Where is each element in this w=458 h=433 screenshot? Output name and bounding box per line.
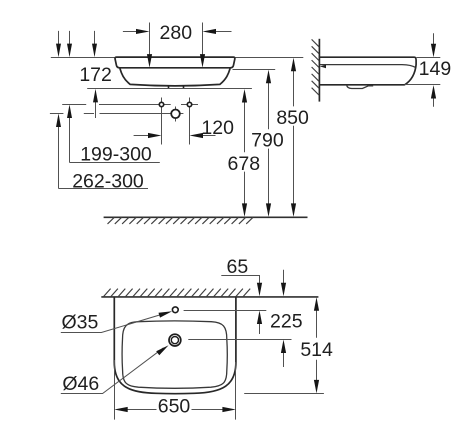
small wall fixing mark	[320, 65, 326, 69]
svg-text:514: 514	[300, 339, 333, 361]
underside extension line (to 149 dim)	[405, 84, 440, 86]
dim 790: vertical line with arrows	[268, 75, 270, 212]
dim 262-300: up arrow at mixer centerline, leader to label	[58, 125, 60, 189]
front view: rim top extension line left	[51, 57, 115, 59]
dim 678: vertical line with arrows	[244, 94, 246, 212]
front view: inner rim extension line right (to 790 dim)	[233, 69, 276, 71]
svg-text:Ø46: Ø46	[62, 373, 99, 395]
mixer hole (crosshair circle)	[175, 107, 177, 122]
washbasin plan: outer outline	[114, 297, 236, 394]
svg-text:650: 650	[158, 395, 191, 417]
extension line from mixer hole (to 225 dim)	[188, 339, 291, 341]
dim 172: up arrow onto underside line	[95, 100, 97, 118]
dim 225: arrows between wall and mixer-hole line	[283, 270, 285, 286]
dim 262-300: down arrow at rim line	[58, 31, 60, 46]
washbasin side profile: underside	[319, 84, 405, 86]
front view: rim top extension line right (to 850 dim)	[235, 57, 303, 59]
dim 120: left tail + arrow	[134, 135, 152, 137]
wall line (side view)	[318, 39, 320, 102]
svg-text:790: 790	[251, 129, 284, 151]
dim 199-300: up arrow at tap-hole centerline, leader to label	[69, 116, 71, 163]
wall hatching (plan view)	[104, 289, 251, 297]
mixer hole centerline (dashed)	[50, 113, 184, 115]
dim 199-300: down arrow at rim line	[69, 31, 71, 46]
dim 149: bottom arrow	[433, 96, 435, 107]
basin underside / mounting line (678 extension)	[87, 88, 252, 90]
floor hatching	[108, 217, 253, 224]
wall line (plan view)	[101, 296, 318, 298]
svg-text:225: 225	[270, 310, 303, 332]
washbasin side profile: inner rim edge	[320, 65, 416, 68]
basin bottom extension line (to 514 dim)	[244, 393, 324, 395]
svg-text:65: 65	[227, 256, 249, 278]
dim 280: left extension line with down arrow	[149, 23, 151, 59]
dim 149: top arrow	[433, 33, 435, 46]
svg-text:149: 149	[419, 58, 452, 80]
tap hole Ø35 (plan)	[172, 307, 178, 313]
dim 280: right tail + arrow	[213, 31, 232, 33]
tap hole right (crosshair circle)	[189, 98, 191, 145]
washbasin front outline: bowl body	[120, 68, 230, 86]
dim 850: vertical line with arrows	[293, 62, 295, 211]
dim 650: extension lines	[115, 360, 236, 420]
floor line	[104, 216, 308, 218]
dim 280: right extension line with down arrow	[202, 23, 204, 59]
washbasin drain fitting (front)	[169, 85, 184, 88]
rim top extension line (to 149 dim)	[417, 57, 441, 59]
svg-text:678: 678	[228, 153, 261, 175]
washbasin side profile: rim top and front nose	[319, 57, 416, 84]
extension line from tap hole (to 65 dim)	[184, 310, 267, 312]
washbasin front outline: rim	[115, 57, 235, 68]
svg-text:172: 172	[79, 64, 112, 86]
svg-text:280: 280	[160, 22, 193, 44]
tap hole centerline (dashed)	[62, 104, 198, 106]
svg-text:262-300: 262-300	[72, 171, 144, 193]
washbasin plan: inner rim	[122, 321, 227, 388]
wall hatching (side view)	[312, 39, 319, 95]
svg-text:120: 120	[201, 117, 234, 139]
dim 120: right tail + arrow	[200, 135, 216, 137]
mixer hole Ø46 (plan, double circle)	[169, 334, 181, 346]
drain fitting (side)	[347, 85, 374, 89]
tap hole left (crosshair circle)	[161, 98, 163, 145]
svg-text:Ø35: Ø35	[61, 311, 98, 333]
dim 650: dimension line with arrows	[125, 409, 225, 411]
dim 514: vertical line with arrows	[316, 302, 318, 388]
svg-text:850: 850	[276, 107, 309, 129]
dim 172: down arrow onto rim line	[94, 31, 96, 46]
dim 280: left tail + arrow	[123, 31, 139, 33]
